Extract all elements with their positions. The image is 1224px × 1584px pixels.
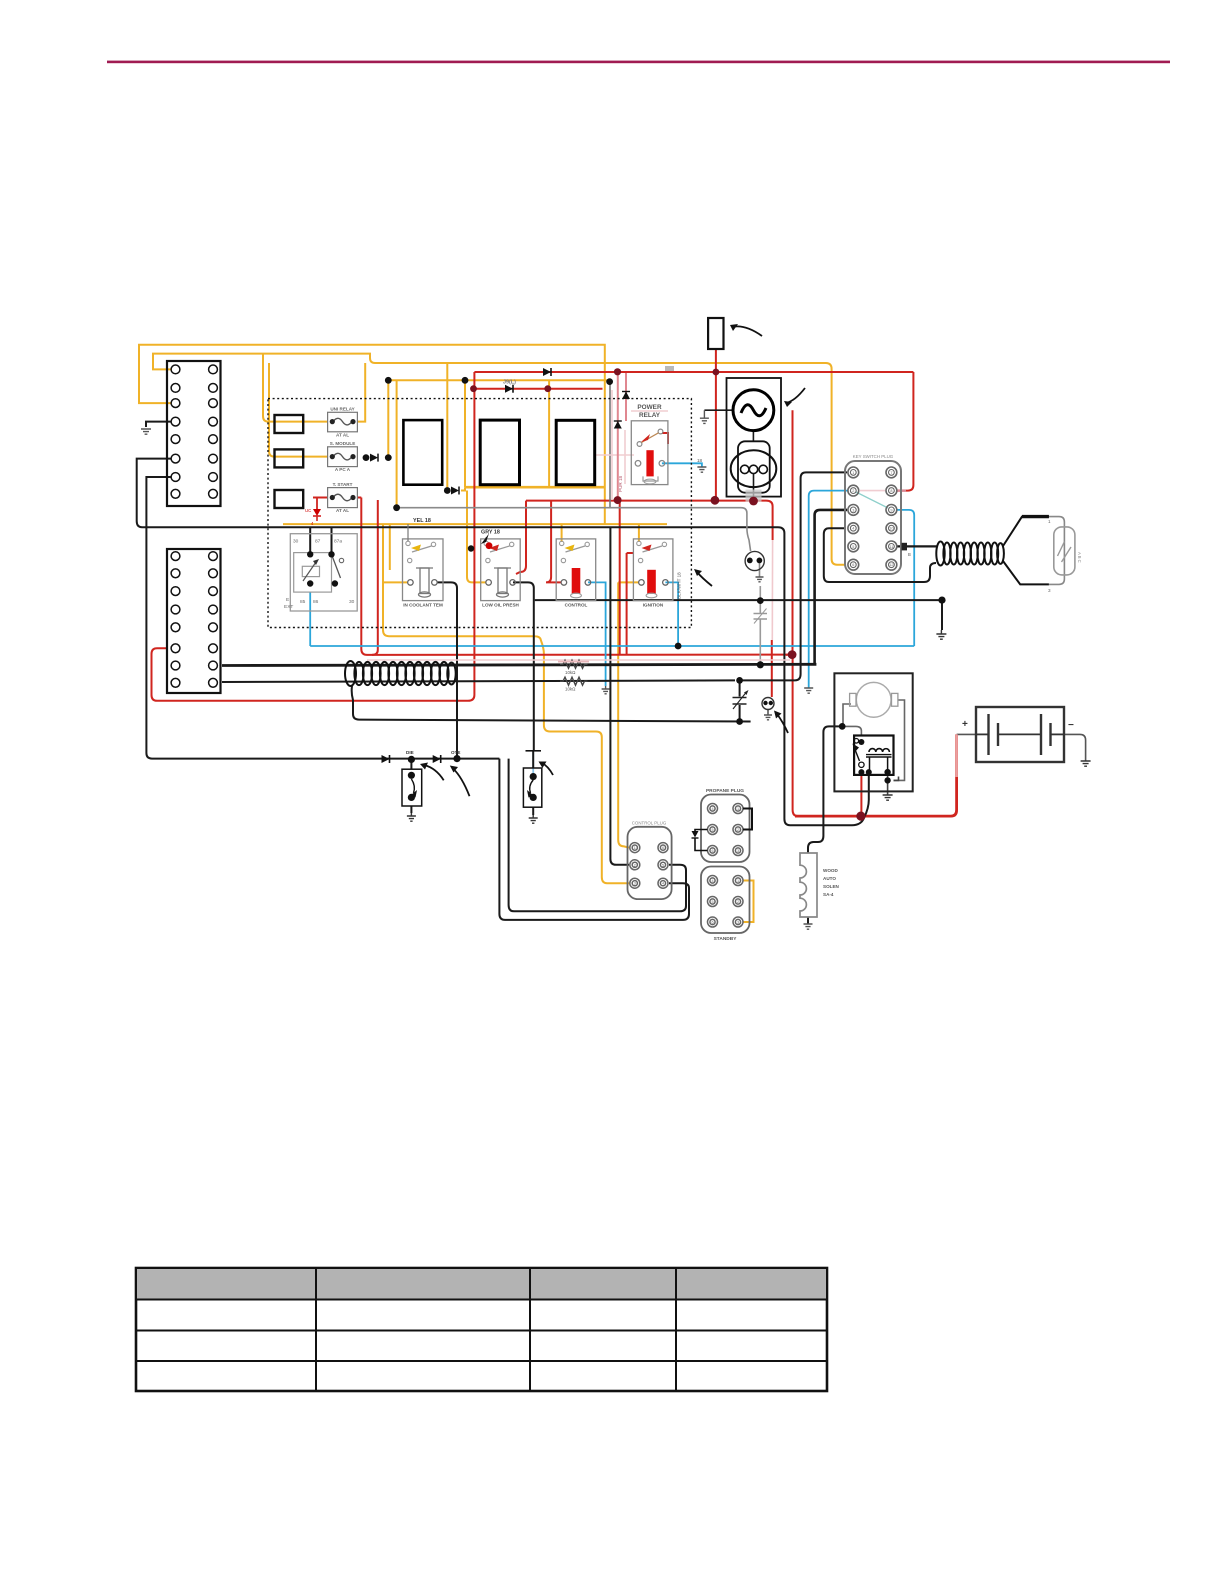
svg-text:E: E <box>286 597 289 603</box>
svg-text:CONTROL PLUG: CONTROL PLUG <box>632 821 667 826</box>
svg-text:S. MODULE: S. MODULE <box>330 441 356 446</box>
svg-text:11: 11 <box>889 545 893 549</box>
svg-text:2: 2 <box>737 900 739 904</box>
svg-text:LOW OIL PRESH: LOW OIL PRESH <box>482 603 519 608</box>
svg-text:1: 1 <box>852 471 854 475</box>
svg-text:AT AL: AT AL <box>336 508 349 513</box>
svg-text:9: 9 <box>890 508 892 512</box>
svg-text:GRY 18: GRY 18 <box>481 530 500 536</box>
svg-text:A B C: A B C <box>1077 552 1082 563</box>
svg-text:OTE: OTE <box>451 750 460 755</box>
svg-text:AUTO: AUTO <box>823 876 836 881</box>
svg-text:A PC A: A PC A <box>335 467 351 472</box>
svg-text:IGNITION: IGNITION <box>643 603 664 608</box>
svg-text:6: 6 <box>852 563 854 567</box>
svg-text:87a: 87a <box>334 539 342 545</box>
svg-text:KEY SWITCH PLUG: KEY SWITCH PLUG <box>853 454 894 459</box>
svg-text:1: 1 <box>737 879 739 883</box>
svg-text:86: 86 <box>313 599 319 605</box>
svg-text:−: − <box>1068 720 1074 731</box>
svg-text:2: 2 <box>737 828 739 832</box>
svg-text:87: 87 <box>315 539 321 545</box>
svg-text:EXT: EXT <box>284 604 293 610</box>
svg-text:WOOD: WOOD <box>823 868 838 873</box>
svg-text:BLK/WHT 18: BLK/WHT 18 <box>677 572 682 599</box>
svg-text:4: 4 <box>711 807 713 811</box>
svg-text:IN COOLANT TEM: IN COOLANT TEM <box>403 603 443 608</box>
svg-text:POWER: POWER <box>637 404 662 411</box>
svg-text:6: 6 <box>662 846 664 850</box>
svg-text:UC: UC <box>305 508 311 513</box>
svg-text:3: 3 <box>1048 588 1051 593</box>
svg-text:PROPANE PLUG: PROPANE PLUG <box>706 788 744 794</box>
svg-text:4: 4 <box>852 527 854 531</box>
svg-text:AT AL: AT AL <box>336 433 349 438</box>
svg-text:10kΩ: 10kΩ <box>565 670 576 675</box>
svg-text:2: 2 <box>852 489 854 493</box>
svg-text:3: 3 <box>634 882 636 886</box>
svg-text:12: 12 <box>889 563 893 567</box>
svg-text:STANDBY: STANDBY <box>714 936 738 942</box>
svg-text:7: 7 <box>890 471 892 475</box>
svg-text:3: 3 <box>852 508 854 512</box>
svg-text:PUR 18: PUR 18 <box>618 475 623 492</box>
svg-text:30: 30 <box>349 599 355 605</box>
svg-text:RELAY: RELAY <box>639 412 661 419</box>
svg-text:85: 85 <box>300 599 306 605</box>
svg-text:1: 1 <box>737 807 739 811</box>
svg-text:18: 18 <box>697 458 703 463</box>
svg-text:6: 6 <box>711 849 713 853</box>
svg-text:DIE: DIE <box>406 750 414 755</box>
svg-text:30: 30 <box>293 539 299 545</box>
svg-text:10: 10 <box>889 527 893 531</box>
svg-text:B: B <box>908 552 911 557</box>
svg-text:YEL 18: YEL 18 <box>413 518 431 524</box>
svg-text:6: 6 <box>711 921 713 925</box>
svg-text:SA-4: SA-4 <box>823 892 834 897</box>
svg-text:1: 1 <box>1048 519 1051 524</box>
svg-text:4: 4 <box>662 882 664 886</box>
svg-text:4: 4 <box>711 879 713 883</box>
svg-text:CONTROL: CONTROL <box>565 603 588 608</box>
svg-text:3: 3 <box>737 921 739 925</box>
svg-text:2: 2 <box>634 863 636 867</box>
svg-text:8: 8 <box>890 489 892 493</box>
svg-text:10kΩ: 10kΩ <box>565 687 576 692</box>
svg-text:5: 5 <box>662 863 664 867</box>
svg-text:UNI RELAY: UNI RELAY <box>330 407 354 412</box>
svg-text:5: 5 <box>852 545 854 549</box>
svg-text:SOLEN: SOLEN <box>823 884 840 889</box>
svg-text:J9(L): J9(L) <box>503 380 516 386</box>
svg-text:5: 5 <box>711 900 713 904</box>
svg-text:1: 1 <box>634 846 636 850</box>
svg-text:T. START: T. START <box>333 482 353 487</box>
svg-text:3: 3 <box>737 849 739 853</box>
svg-text:5: 5 <box>711 828 713 832</box>
svg-text:+: + <box>962 719 968 730</box>
